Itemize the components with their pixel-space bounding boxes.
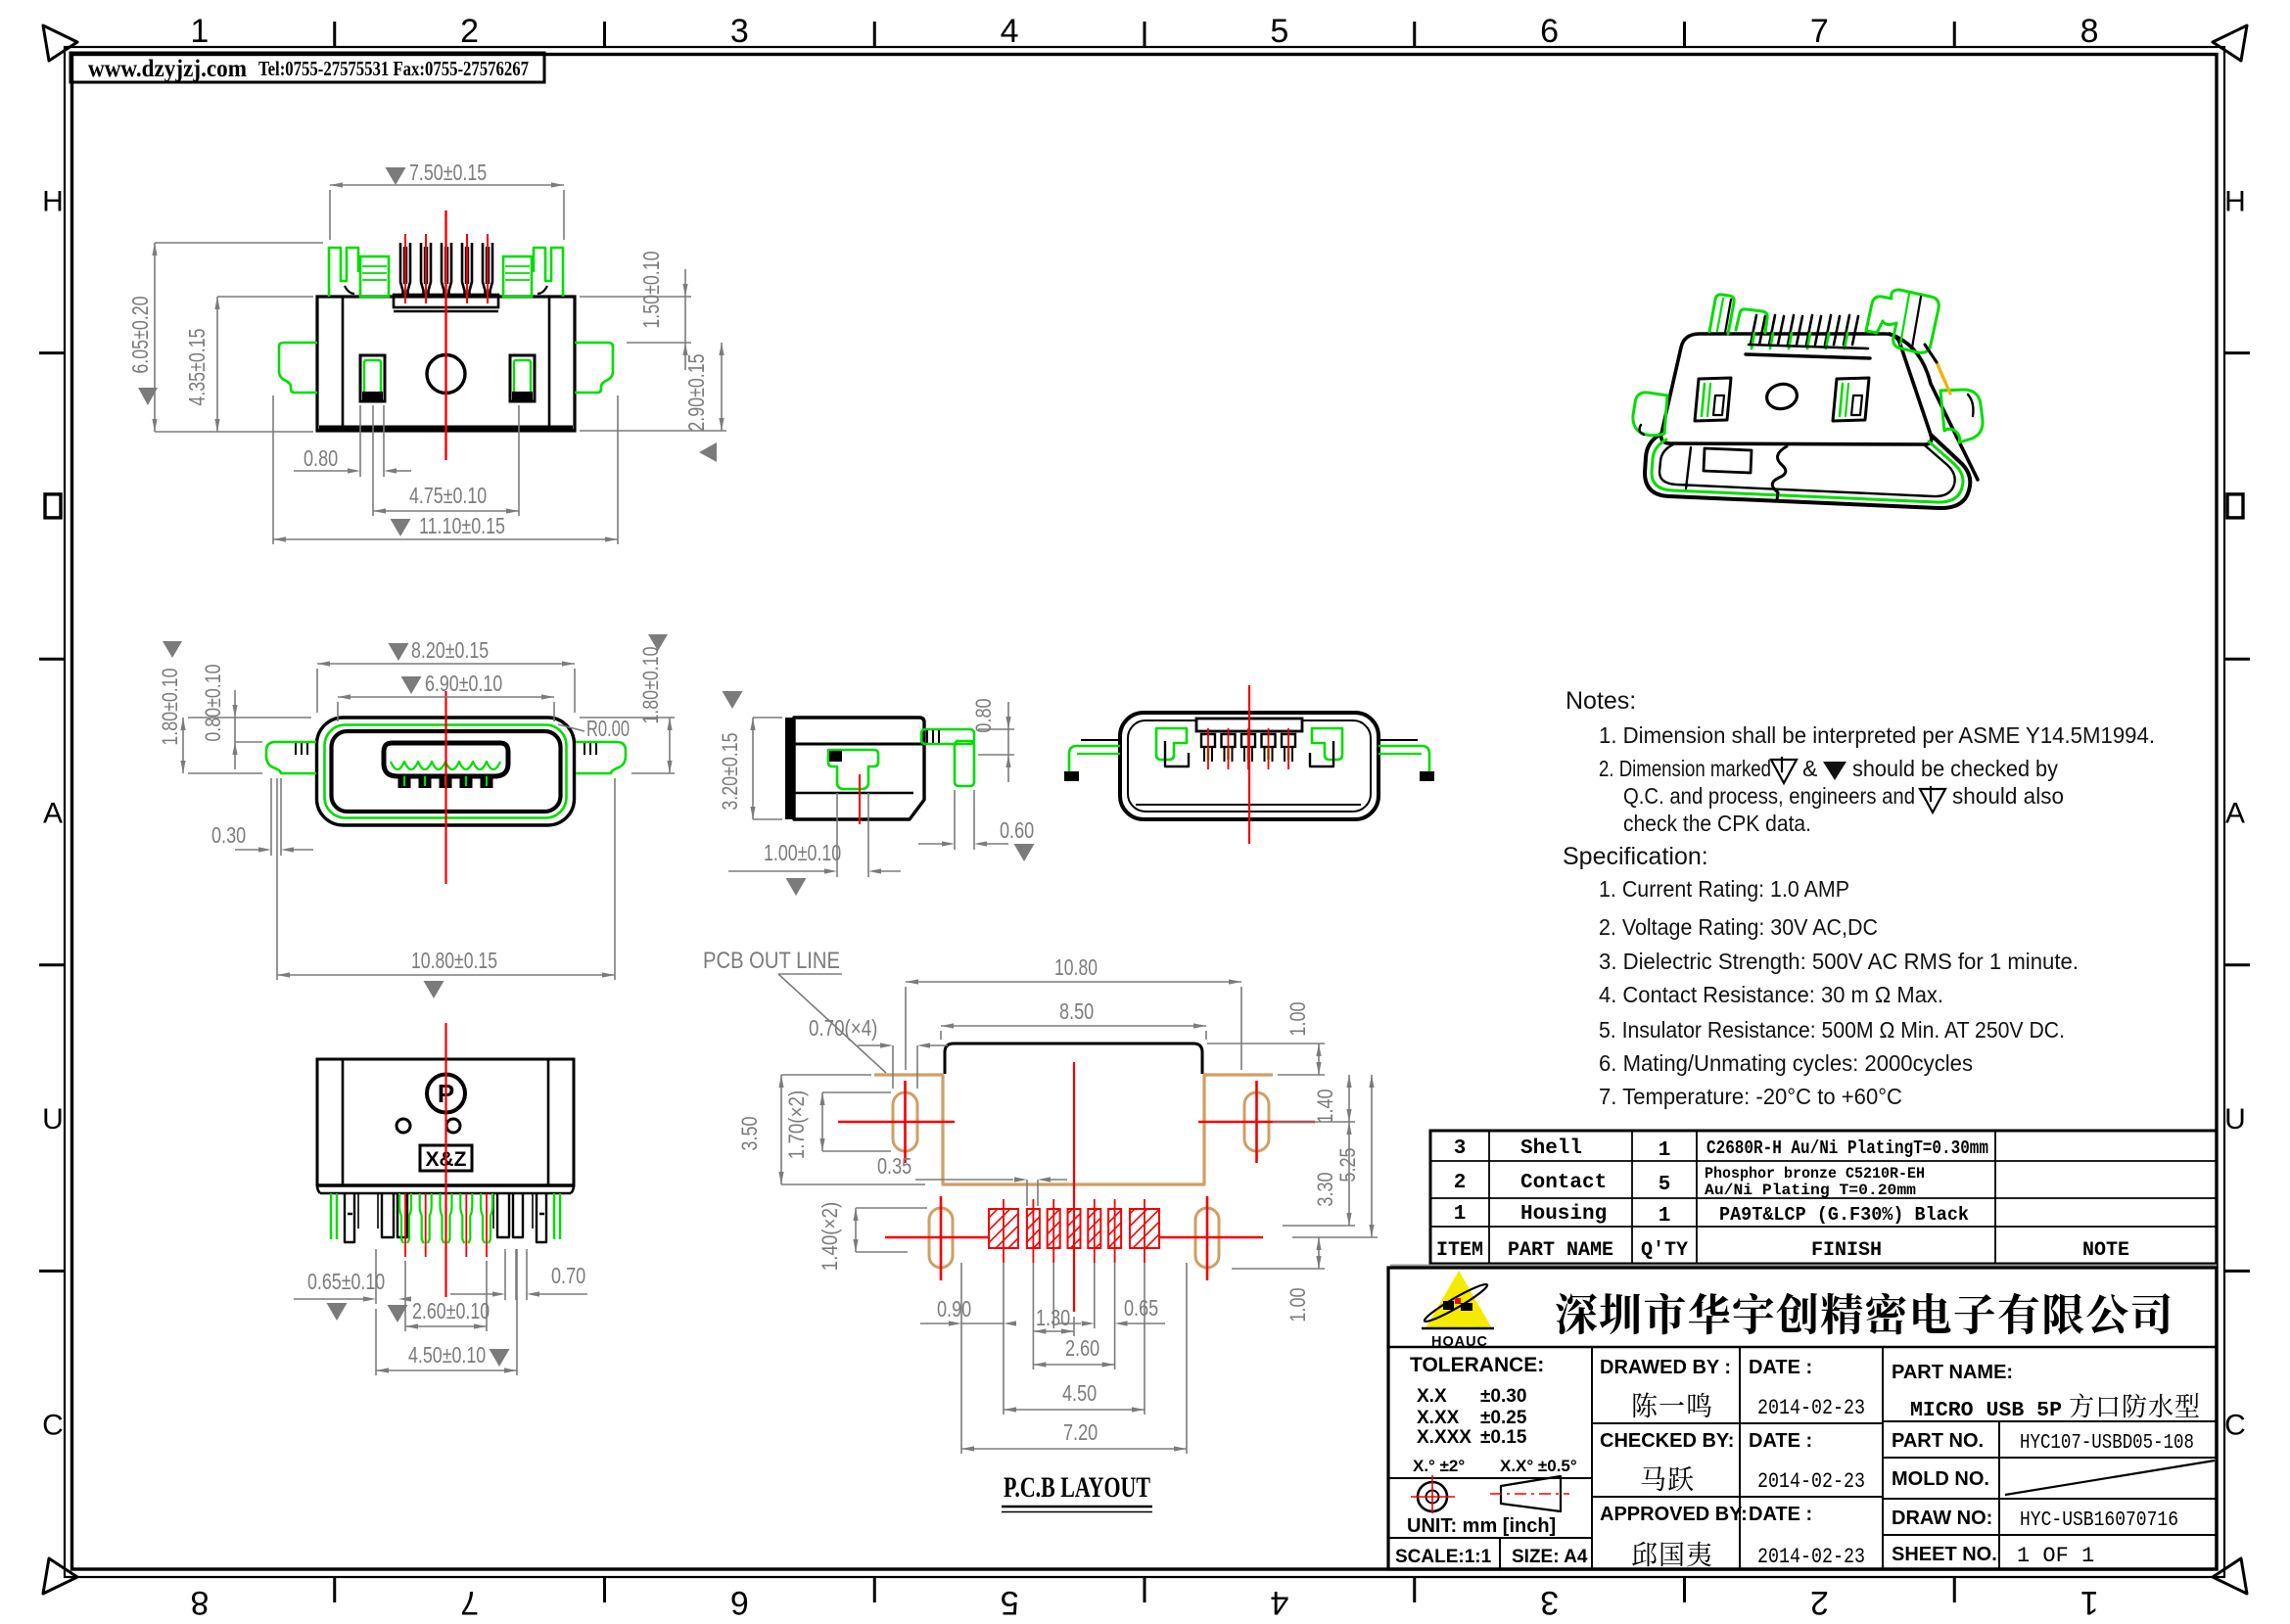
header contact box — [70, 53, 544, 82]
table shadow — [1390, 1265, 2217, 1269]
svg-text:0.80: 0.80 — [971, 698, 996, 732]
approver name — [1632, 1542, 1711, 1567]
svg-text:2.90±0.15: 2.90±0.15 — [683, 353, 709, 431]
pcb bottom extension lines — [960, 1263, 962, 1454]
front view gasket — [325, 725, 567, 818]
svg-text:8.50: 8.50 — [1059, 998, 1094, 1024]
top view left leg — [279, 343, 317, 393]
svg-text:5: 5 — [1001, 1584, 1019, 1619]
pcb centerline — [1073, 1062, 1075, 1312]
mold no diagonal — [2005, 1461, 2215, 1495]
isometric body right edge — [1890, 334, 1978, 480]
svg-text:SCALE:1:1: SCALE:1:1 — [1395, 1547, 1492, 1567]
svg-text:HOAUC: HOAUC — [1431, 1333, 1488, 1350]
svg-text:ITEM: ITEM — [1436, 1239, 1483, 1262]
side view latch — [828, 750, 878, 789]
svg-text:DATE :: DATE : — [1749, 1430, 1812, 1452]
svg-text:5: 5 — [1270, 13, 1288, 50]
bottom view circle P — [427, 1075, 465, 1113]
svg-text:5.25: 5.25 — [1335, 1147, 1360, 1182]
svg-text:4.50: 4.50 — [1062, 1380, 1097, 1406]
part info section — [1883, 1420, 2217, 1422]
checker name — [1642, 1466, 1694, 1491]
svg-text:2.60±0.10: 2.60±0.10 — [412, 1298, 490, 1323]
bottom view X&Z mark — [420, 1145, 472, 1171]
svg-text:P.C.B LAYOUT: P.C.B LAYOUT — [1004, 1471, 1150, 1504]
svg-text:Shell: Shell — [1520, 1137, 1582, 1160]
svg-text:1: 1 — [2080, 1584, 2099, 1619]
svg-text:6.05±0.20: 6.05±0.20 — [127, 296, 153, 373]
svg-text:CHECKED BY:: CHECKED BY: — [1600, 1430, 1734, 1452]
svg-text:H: H — [42, 185, 64, 217]
svg-text:1: 1 — [190, 13, 209, 50]
svg-text:1. Dimension shall be interpre: 1. Dimension shall be interpreted per AS… — [1599, 722, 2155, 748]
svg-text:8.20±0.15: 8.20±0.15 — [411, 637, 489, 663]
BOM table frame — [1430, 1131, 2217, 1264]
svg-text:3. Dielectric Strength: 500V A: 3. Dielectric Strength: 500V AC RMS for … — [1599, 949, 2079, 974]
svg-text:8: 8 — [190, 1584, 209, 1619]
svg-text:0.70: 0.70 — [551, 1263, 585, 1288]
svg-text:6.90±0.10: 6.90±0.10 — [425, 671, 502, 696]
svg-text:DATE :: DATE : — [1749, 1504, 1812, 1525]
dim 8.20 — [389, 643, 409, 661]
svg-text:5: 5 — [1659, 1174, 1671, 1196]
top view center hole — [427, 355, 465, 394]
isometric pins — [1751, 315, 1765, 345]
svg-text:1.40: 1.40 — [1313, 1089, 1337, 1123]
front view contacts — [391, 762, 500, 769]
pcb mount pad lower-right — [1195, 1208, 1219, 1268]
svg-text:3: 3 — [1540, 1584, 1559, 1619]
svg-text:APPROVED BY:: APPROVED BY: — [1600, 1504, 1748, 1525]
svg-text:TOLERANCE:: TOLERANCE: — [1410, 1354, 1544, 1376]
top view right shield tabs — [534, 248, 563, 297]
svg-text:1.00: 1.00 — [1285, 1001, 1310, 1036]
svg-text:DRAW NO:: DRAW NO: — [1892, 1508, 1992, 1529]
svg-text:Housing: Housing — [1520, 1203, 1607, 1226]
svg-text:MICRO USB 5P: MICRO USB 5P — [1910, 1400, 2062, 1422]
svg-text:C: C — [2224, 1410, 2246, 1442]
drawer name — [1634, 1392, 1711, 1417]
svg-text:1.70(×2): 1.70(×2) — [784, 1090, 809, 1159]
side view body — [794, 718, 924, 819]
svg-text:PCB OUT LINE: PCB OUT LINE — [703, 948, 840, 974]
svg-text:Phosphor bronze C5210R-EH: Phosphor bronze C5210R-EH — [1705, 1165, 1925, 1183]
top view pins — [400, 243, 410, 297]
svg-text:4: 4 — [1270, 1584, 1288, 1619]
svg-text:1.30: 1.30 — [1036, 1305, 1070, 1330]
svg-text:Contact: Contact — [1520, 1172, 1607, 1194]
svg-text:0.65±0.10: 0.65±0.10 — [307, 1269, 385, 1294]
isometric hole — [1764, 382, 1799, 412]
svg-text:check the CPK data.: check the CPK data. — [1623, 811, 1811, 836]
bottom view contact pins — [399, 1193, 411, 1243]
svg-text:H: H — [2224, 185, 2246, 217]
corner arrow bottom-right — [2213, 1558, 2247, 1594]
top view body — [317, 297, 575, 431]
svg-text:6. Mating/Unmating cycles: 200: 6. Mating/Unmating cycles: 2000cycles — [1599, 1050, 1973, 1076]
svg-text:4.35±0.15: 4.35±0.15 — [184, 328, 210, 405]
svg-text:2014-02-23: 2014-02-23 — [1757, 1469, 1865, 1494]
svg-text:DATE :: DATE : — [1749, 1357, 1812, 1378]
dim 7.50 — [386, 167, 406, 185]
top view right pad — [510, 355, 535, 401]
rear view left leg — [1069, 746, 1120, 771]
svg-text:NOTE: NOTE — [2082, 1239, 2129, 1262]
svg-text:0.35: 0.35 — [877, 1153, 911, 1179]
pcb shell outline — [945, 1044, 1202, 1074]
svg-text:2: 2 — [1454, 1172, 1467, 1194]
svg-text:PART NO.: PART NO. — [1892, 1430, 1984, 1452]
svg-text:SIZE: A4: SIZE: A4 — [1512, 1547, 1588, 1567]
svg-text:1 OF 1: 1 OF 1 — [2017, 1544, 2094, 1568]
svg-text:0.65: 0.65 — [1124, 1295, 1158, 1321]
svg-text:C: C — [42, 1410, 64, 1442]
isometric front rim inner — [1659, 444, 1955, 496]
signature columns — [1739, 1347, 1741, 1569]
svg-text:&: & — [1802, 756, 1817, 781]
rear view pins — [1201, 734, 1215, 747]
svg-text:HYC-USB16070716: HYC-USB16070716 — [2020, 1509, 2178, 1532]
svg-text:7. Temperature: -20°C to +60°C: 7. Temperature: -20°C to +60°C — [1599, 1084, 1902, 1109]
svg-text:1.80±0.10: 1.80±0.10 — [158, 668, 182, 745]
pcb board outline — [874, 1075, 1273, 1184]
svg-text:1.50±0.10: 1.50±0.10 — [638, 251, 664, 328]
corner arrow top-left — [43, 25, 77, 61]
svg-text:0.90: 0.90 — [937, 1296, 971, 1322]
svg-text:10.80±0.15: 10.80±0.15 — [411, 948, 497, 973]
svg-text:UNIT: mm [inch]: UNIT: mm [inch] — [1407, 1515, 1556, 1537]
svg-text:C2680R-H Au/Ni PlatingT=0.30: C2680R-H Au/Ni PlatingT=0.30mm — [1706, 1137, 1988, 1159]
rear view notch — [1196, 719, 1302, 731]
isometric clip top-left — [1709, 295, 1734, 334]
svg-text:7.20: 7.20 — [1063, 1419, 1098, 1445]
top view right leg — [575, 343, 613, 393]
svg-text:2. Voltage Rating: 30V AC,DC: 2. Voltage Rating: 30V AC,DC — [1599, 914, 1878, 940]
pcb mount pad lower-left — [929, 1208, 953, 1268]
svg-text:Q.C. and process, engineers an: Q.C. and process, engineers and — [1623, 783, 1915, 809]
isometric clip top-right — [1866, 290, 1939, 352]
svg-text:4. Contact Resistance: 30 m Ω: 4. Contact Resistance: 30 m Ω Max. — [1599, 982, 1943, 1007]
svg-text:2014-02-23: 2014-02-23 — [1757, 1396, 1865, 1420]
svg-text:0.70(×4): 0.70(×4) — [809, 1015, 877, 1041]
svg-text:4.75±0.10: 4.75±0.10 — [409, 483, 487, 508]
svg-text:1.80±0.10: 1.80±0.10 — [638, 646, 663, 723]
svg-text:1: 1 — [1659, 1139, 1671, 1162]
front view right leg — [576, 742, 626, 773]
rear view left clip — [1156, 728, 1187, 760]
svg-text:www.dzyjzj.com: www.dzyjzj.com — [88, 56, 247, 82]
svg-text:7.50±0.15: 7.50±0.15 — [409, 160, 487, 185]
svg-text:X.XXX: X.XXX — [1417, 1427, 1472, 1448]
cone symbol — [1501, 1476, 1561, 1511]
svg-text:2.60: 2.60 — [1065, 1335, 1099, 1361]
isometric front rim outer — [1645, 434, 1970, 508]
isometric window left — [1695, 378, 1731, 421]
svg-text:PA9T&LCP (G.F30%) Black: PA9T&LCP (G.F30%) Black — [1719, 1204, 1969, 1226]
svg-text:Specification:: Specification: — [1563, 843, 1708, 870]
svg-text:6: 6 — [1540, 13, 1559, 50]
rear view right clip — [1312, 728, 1342, 760]
svg-text:0.60: 0.60 — [1000, 817, 1034, 843]
svg-text:±0.15: ±0.15 — [1480, 1427, 1527, 1448]
dim 1.80 left — [163, 641, 182, 658]
svg-text:SHEET NO.: SHEET NO. — [1892, 1544, 1997, 1565]
top view left shield tabs — [329, 248, 358, 297]
svg-text:3.30: 3.30 — [1313, 1172, 1337, 1206]
isometric front rim gasket — [1652, 440, 1963, 502]
pcb solder pads — [989, 1209, 1018, 1248]
svg-text:3: 3 — [1454, 1137, 1467, 1160]
svg-text:1. Current Rating: 1.0 AMP: 1. Current Rating: 1.0 AMP — [1599, 876, 1849, 902]
svg-text:±0.25: ±0.25 — [1480, 1408, 1527, 1428]
front view tongue teeth — [398, 774, 411, 788]
svg-text:2: 2 — [460, 13, 479, 50]
dim 1.80 right — [648, 634, 668, 651]
svg-text:1: 1 — [1454, 1203, 1467, 1226]
svg-text:10.80: 10.80 — [1054, 954, 1098, 980]
front view cavity — [332, 731, 561, 812]
svg-text:7: 7 — [460, 1584, 479, 1619]
company name — [1556, 1293, 2170, 1335]
svg-text:X.X: X.X — [1417, 1386, 1447, 1407]
svg-text:1.00±0.10: 1.00±0.10 — [764, 840, 841, 865]
corner arrow top-right — [2213, 25, 2247, 61]
svg-text:1: 1 — [1659, 1205, 1671, 1228]
svg-text:7: 7 — [1810, 13, 1829, 50]
title block frame — [1388, 1268, 2217, 1569]
isometric orange pin — [1937, 362, 1950, 394]
rear view shell — [1120, 713, 1379, 819]
bottom view body — [317, 1059, 574, 1185]
svg-text:4: 4 — [1001, 13, 1019, 50]
front view left leg — [266, 742, 316, 773]
svg-text:Q'TY: Q'TY — [1641, 1239, 1688, 1262]
svg-text:X.XX: X.XX — [1417, 1408, 1460, 1428]
dim 3.20 — [723, 691, 743, 709]
svg-text:0.80±0.10: 0.80±0.10 — [201, 664, 225, 741]
side view leg — [921, 729, 974, 744]
svg-text:4.50±0.10: 4.50±0.10 — [408, 1342, 486, 1368]
svg-text:MOLD NO.: MOLD NO. — [1892, 1468, 1989, 1490]
svg-text:X.X° ±0.5°: X.X° ±0.5° — [1500, 1457, 1577, 1475]
svg-text:Notes:: Notes: — [1566, 687, 1636, 715]
rear view right leg — [1379, 746, 1429, 771]
isometric small tab — [1736, 309, 1767, 333]
svg-text:should be checked by: should be checked by — [1852, 756, 2058, 781]
svg-text:2: 2 — [1810, 1584, 1829, 1619]
svg-text:3.20±0.15: 3.20±0.15 — [718, 732, 742, 810]
svg-text:0.30: 0.30 — [211, 822, 246, 848]
svg-text:R0.00: R0.00 — [586, 716, 630, 741]
svg-text:6: 6 — [730, 1584, 749, 1619]
isometric clip left — [1633, 393, 1667, 436]
svg-text:FINISH: FINISH — [1811, 1239, 1882, 1262]
svg-text:DRAWED BY :: DRAWED BY : — [1600, 1357, 1731, 1378]
svg-text:A: A — [43, 798, 63, 830]
svg-text:2. Dimension marked: 2. Dimension marked — [1599, 756, 1771, 781]
isometric clip right — [1940, 390, 1983, 442]
svg-text:Au/Ni Plating T=0.20mm: Au/Ni Plating T=0.20mm — [1705, 1182, 1916, 1199]
top view centerline — [444, 210, 446, 460]
svg-text:3: 3 — [730, 13, 749, 50]
tolerance box — [1591, 1347, 1593, 1569]
svg-text:U: U — [42, 1103, 64, 1136]
grid tick marks — [333, 22, 336, 47]
rear view centerline — [1248, 685, 1250, 844]
dim 11.10 — [391, 519, 411, 536]
projection symbol — [1418, 1482, 1447, 1511]
bottom view left pins — [330, 1193, 332, 1239]
dim 6.90 — [401, 676, 422, 694]
bottom view right pins — [559, 1193, 561, 1239]
isometric body top face — [1661, 334, 1932, 444]
top view pin centerlines — [404, 234, 406, 303]
svg-text:Tel:0755-27575531 Fax:0755-27: Tel:0755-27575531 Fax:0755-27576267 — [258, 57, 529, 80]
isometric front latch — [1704, 448, 1752, 473]
svg-text:A: A — [2225, 798, 2245, 830]
svg-text:should also: should also — [1952, 783, 2064, 809]
company logo — [1425, 1271, 1492, 1328]
svg-text:3.50: 3.50 — [737, 1116, 762, 1150]
top view contact plate — [394, 295, 498, 307]
dim 2.60 bottom — [388, 1305, 408, 1322]
svg-text:1.00: 1.00 — [1285, 1287, 1310, 1322]
svg-text:±0.30: ±0.30 — [1480, 1386, 1526, 1407]
svg-text:U: U — [2224, 1103, 2246, 1136]
svg-text:PART NAME: PART NAME — [1508, 1239, 1613, 1262]
top view left pad — [360, 355, 385, 401]
svg-text:PART NAME:: PART NAME: — [1892, 1362, 2013, 1383]
bottom view holes — [397, 1119, 410, 1133]
svg-text:2014-02-23: 2014-02-23 — [1757, 1545, 1865, 1569]
corner arrow bottom-left — [43, 1558, 77, 1594]
bottom view centerline — [444, 1023, 446, 1297]
svg-text:1.40(×2): 1.40(×2) — [818, 1202, 842, 1271]
front view centerline — [444, 691, 446, 884]
svg-text:X.° ±2°: X.° ±2° — [1413, 1457, 1465, 1475]
svg-text:5. Insulator Resistance: 500M: 5. Insulator Resistance: 500M Ω Min. AT … — [1599, 1017, 2065, 1043]
isometric window right — [1833, 378, 1869, 421]
pcb mount pad upper-right — [1244, 1092, 1269, 1151]
front view tongue — [384, 743, 508, 776]
svg-text:11.10±0.15: 11.10±0.15 — [419, 513, 505, 538]
svg-text:HYC107-USBD05-108: HYC107-USBD05-108 — [2020, 1432, 2194, 1455]
isometric view — [1633, 290, 1983, 508]
svg-text:8: 8 — [2080, 13, 2099, 50]
pcb mount pad upper-left — [893, 1092, 917, 1151]
front view shell — [317, 718, 575, 825]
svg-text:0.80: 0.80 — [304, 445, 338, 471]
